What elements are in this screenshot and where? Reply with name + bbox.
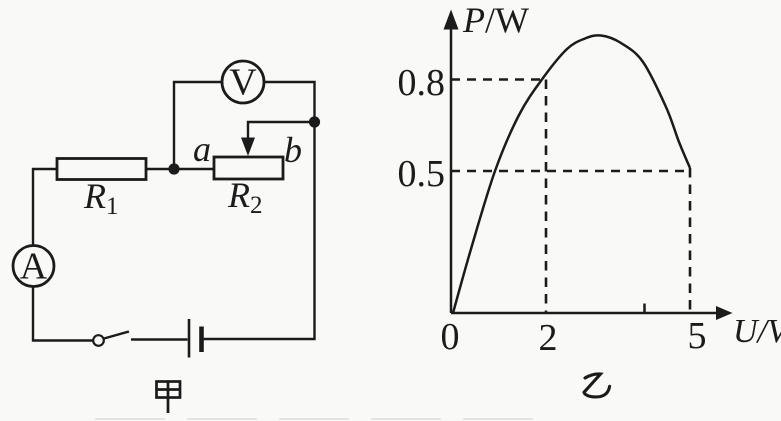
svg-text:P/W: P/W (462, 0, 529, 40)
svg-text:a: a (193, 129, 211, 169)
svg-text:U/V: U/V (733, 313, 781, 350)
svg-text:V: V (229, 62, 257, 104)
svg-text:b: b (284, 130, 302, 170)
svg-text:5: 5 (688, 315, 707, 357)
svg-text:0.5: 0.5 (398, 153, 446, 195)
svg-text:2: 2 (539, 317, 558, 359)
svg-text:A: A (20, 246, 48, 288)
svg-text:0: 0 (441, 316, 460, 358)
svg-text:0.8: 0.8 (398, 62, 446, 104)
